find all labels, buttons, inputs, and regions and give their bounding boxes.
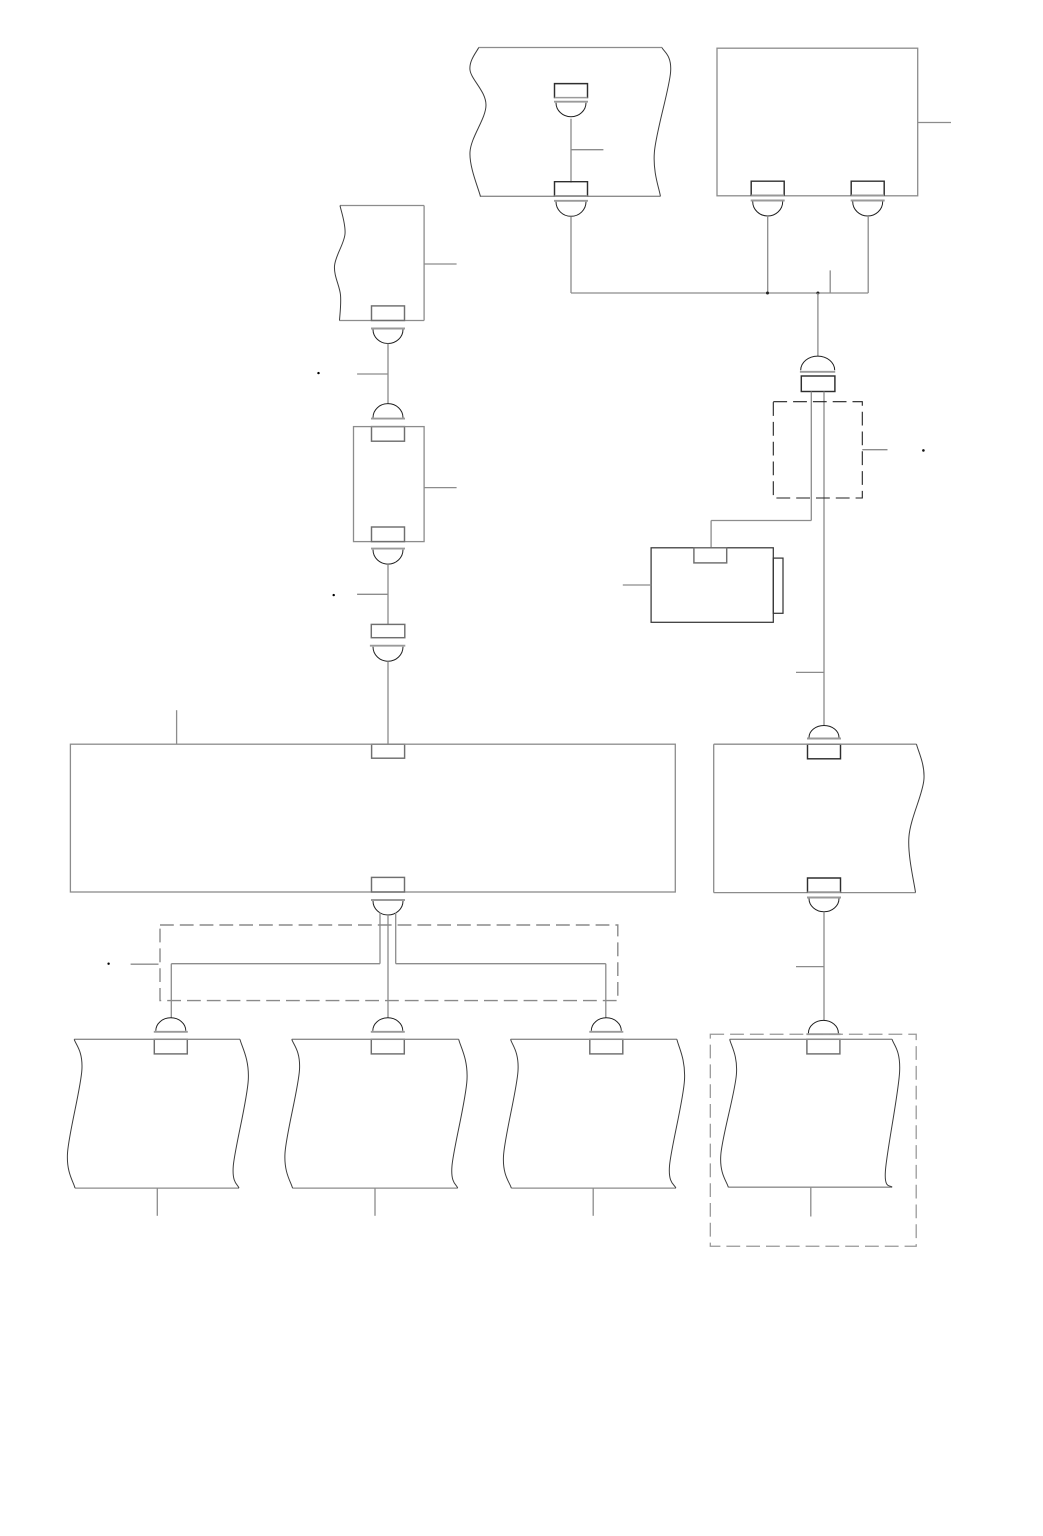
connector P11 plug (down) at B8 bottom edge, left (751, 181, 784, 196)
wire W4a: left branch drop from P5 (379, 913, 381, 964)
wire W4c: right branch drop from P5 (395, 913, 397, 964)
jack rect J4 at adapter top edge (694, 548, 727, 563)
leader tick T6 above bus (829, 270, 831, 293)
connector P2 plug (up) into box B2 top (372, 427, 405, 442)
wire W6a: left branch down to P7 (170, 964, 172, 1018)
dashed callout box D1 on main cable (773, 402, 862, 498)
wire W8: P10 down to bus (570, 216, 572, 293)
connector P10 plug (down) at B7 bottom edge (555, 182, 588, 197)
wire W15: P15 down to P16 (823, 912, 825, 1021)
connector P8 plug (up) into box B6 top (590, 1039, 623, 1054)
leader tick T1 on wire W1 (357, 373, 388, 375)
connector P3 plug (down) at B2 bottom edge (372, 527, 405, 542)
wire W6b: right branch down to P8 (605, 964, 607, 1018)
wire W12: bus junction J3 down to P13 (817, 293, 819, 356)
connector P5 plug (down) at B3 bottom edge (372, 877, 405, 892)
inline connector P13 (plug dome + jack rect) (801, 356, 835, 370)
wire W5b: right branch horizontal (396, 963, 606, 965)
bullet dot label marker 3 (107, 963, 109, 965)
connector P14 plug (up) into box B10 top (808, 744, 841, 759)
stub line below box B6 (592, 1188, 594, 1216)
leader tick T4 into dashed box D2 (131, 963, 159, 965)
wire W7: P9 to P10 inside B7 (570, 119, 572, 183)
device box B4 (bottom-left, torn edges) (74, 1038, 240, 1040)
wire W13a: adapter cable down from P13 (810, 392, 812, 521)
wire W9: P11 down to bus junction (767, 216, 769, 293)
stub line from box B1 right edge (424, 263, 457, 265)
device box B5 (bottom-middle, torn edges) (292, 1038, 459, 1040)
stub line from box B8 right edge (918, 122, 951, 124)
connector P15 plug (down) at B10 bottom edge (808, 878, 841, 893)
stub line from adapter left edge (623, 584, 651, 586)
wire W2: P3 to inline connector P4 (387, 564, 389, 624)
connector P16 plug (up) into box B11 top (807, 1039, 840, 1054)
stub line from box B2 right edge (424, 487, 457, 489)
device box B3 (wide center unit) (70, 744, 675, 892)
bus wire W11 (horizontal) (571, 292, 868, 294)
connector P12 plug (down) at B8 bottom edge, right (851, 181, 884, 196)
leader tick T8 on wire W15 (796, 966, 824, 968)
stub line below box B4 (156, 1188, 158, 1216)
device box B8 (top-right unit) (717, 48, 918, 196)
wire W5a: left branch horizontal (171, 963, 380, 965)
connector P6 plug (up) into box B5 top (371, 1039, 404, 1054)
inline connector P4 (jack rect + plug dome) (371, 624, 405, 637)
stub line below box B5 (374, 1188, 376, 1216)
wire W4b: middle branch from P5 to P6 (387, 915, 389, 1018)
device box B10 (right unit, torn right edge) (714, 743, 917, 745)
wire W3: P4 to big box B3 top jack (387, 661, 389, 744)
wire W13c: adapter cable down into adapter jack (710, 521, 712, 548)
connector P9 plug (down) inside box B7 (555, 84, 588, 99)
dashed callout box D3 around box B11 (710, 1034, 916, 1246)
connector P1 plug (down) at B1 bottom edge (372, 306, 405, 321)
wire W10: P12 down to bus right end (867, 216, 869, 293)
wire W13b: adapter cable horizontal (711, 520, 811, 522)
junction dot J3 on bus (816, 292, 819, 295)
bullet dot label marker 4 (922, 449, 925, 452)
dashed callout box D2 around splitter wires (160, 925, 618, 1001)
device box B11 (bottom-right, torn edges) (730, 1038, 892, 1040)
leader tick T2 on wire W2 (357, 593, 388, 595)
bullet dot label marker 2 (333, 594, 335, 596)
connector P7 plug (up) into box B4 top (154, 1039, 187, 1054)
device box B2 (mid-left unit) (354, 427, 425, 542)
bullet dot label marker 1 (317, 372, 319, 374)
junction dot J2 on bus (766, 292, 769, 295)
leader tick T3 above box B3 top edge (176, 710, 178, 744)
device box B1 (top-left unit, torn left edge) (340, 205, 424, 207)
leader tick T7 on wire W14 (796, 671, 824, 673)
wire W1: P1 to P2 (387, 344, 389, 404)
wire W14: main cable from P13 down to P14 (823, 392, 825, 726)
device box B6 (bottom-right of trio, torn edges) (511, 1038, 677, 1040)
AC adapter box B9 with side lug (651, 548, 773, 623)
device box B7 (top-center unit, torn edges) (479, 47, 662, 49)
stub line from dashed box D1 right edge (862, 449, 887, 451)
leader tick T5 on wire W7 (571, 149, 603, 151)
jack rect J1 at box B3 top edge (372, 744, 405, 758)
stub line below box B11 (810, 1187, 812, 1216)
